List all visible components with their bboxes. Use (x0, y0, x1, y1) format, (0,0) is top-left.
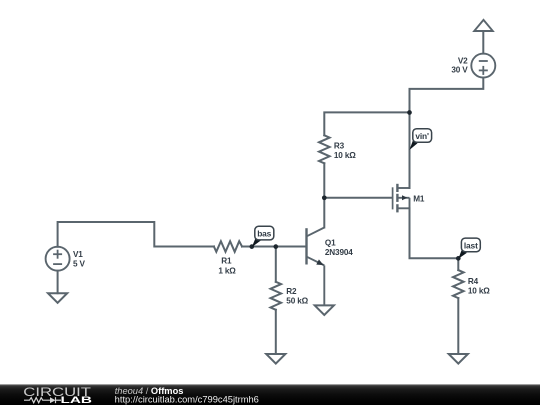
svg-text:50 kΩ: 50 kΩ (286, 296, 308, 305)
svg-text:5 V: 5 V (73, 259, 86, 268)
svg-text:Q1: Q1 (325, 239, 336, 248)
svg-text:30 V: 30 V (451, 66, 468, 75)
svg-text:10 kΩ: 10 kΩ (468, 286, 490, 295)
svg-text:R3: R3 (334, 142, 345, 151)
svg-text:last: last (464, 241, 478, 251)
svg-text:V2: V2 (458, 56, 468, 65)
svg-text:10 kΩ: 10 kΩ (334, 151, 356, 160)
svg-text:http://circuitlab.com/c799c45j: http://circuitlab.com/c799c45jtrmh6 (115, 395, 259, 405)
svg-text:M1: M1 (413, 195, 425, 204)
svg-text:R4: R4 (468, 277, 479, 286)
svg-text:R1: R1 (221, 257, 232, 266)
svg-text:R2: R2 (286, 287, 297, 296)
svg-text:bas: bas (257, 229, 271, 239)
svg-text:LAB: LAB (61, 395, 93, 405)
svg-text:vin': vin' (415, 131, 429, 141)
svg-text:1 kΩ: 1 kΩ (218, 266, 236, 275)
svg-text:2N3904: 2N3904 (325, 248, 353, 257)
svg-text:V1: V1 (73, 250, 83, 259)
